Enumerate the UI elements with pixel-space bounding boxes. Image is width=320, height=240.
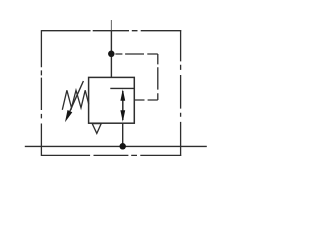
enclosure left edge (dash-dot) (40, 30, 42, 156)
adjustment arrow head (65, 110, 72, 122)
drain triangle (internal drain) (92, 124, 101, 134)
flow arrow head up (120, 89, 125, 101)
spring (adjustable) zigzag (62, 90, 89, 110)
flow path arrow shaft (double-headed, inside valve) (122, 91, 124, 120)
node B: junction dot on tank line (119, 143, 126, 150)
internal pilot passage line (110, 87, 134, 89)
wire: top port line P (110, 30, 112, 77)
enclosure top edge (dash-dot) (41, 30, 181, 32)
node A: junction dot on top port (108, 51, 115, 58)
enclosure bottom edge (dash-dot) (41, 154, 181, 156)
flow arrow head down (120, 110, 125, 122)
valve body V1 (square envelope) (89, 77, 135, 123)
wire: bottom port line T (122, 123, 124, 146)
pilot line (dashed) from node A to valve right side (115, 54, 157, 100)
enclosure right edge (dash-dot) (180, 30, 182, 156)
wire: tank line (horizontal) (25, 145, 207, 147)
wire: top port line P (upper faint part) (110, 20, 112, 30)
adjustment arrow shaft (diagonal through spring) (70, 81, 84, 111)
